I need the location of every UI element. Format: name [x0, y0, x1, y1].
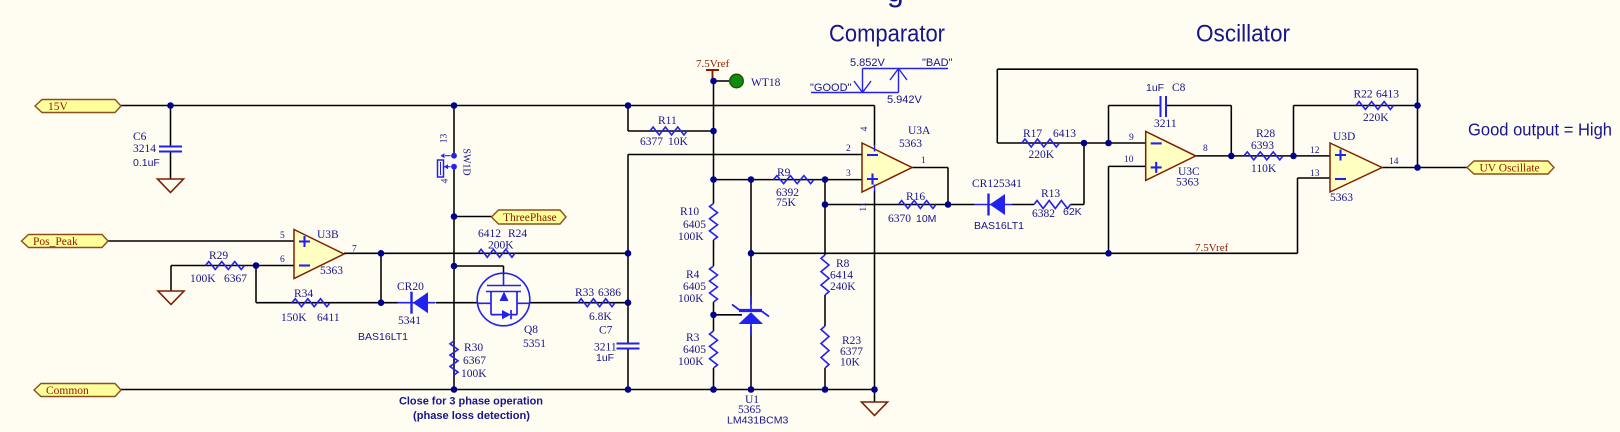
svg-text:R13: R13: [1041, 188, 1060, 200]
svg-text:5363: 5363: [1176, 177, 1199, 189]
resistor R28: [1244, 128, 1283, 175]
svg-text:200K: 200K: [488, 240, 514, 252]
resistor R23: [821, 326, 863, 369]
svg-text:Close for 3 phase operation: Close for 3 phase operation: [399, 396, 543, 408]
svg-text:WT18: WT18: [751, 77, 781, 89]
svg-text:6414: 6414: [830, 270, 853, 282]
wire oscillator top loop vertical right: [1417, 69, 1419, 167]
svg-text:CR125341: CR125341: [972, 178, 1022, 190]
svg-text:4: 4: [860, 126, 870, 131]
resistor R24: [478, 228, 527, 257]
wire SW column lower: [453, 168, 455, 390]
junction R33/col628: [625, 299, 632, 306]
junction pin9/C8: [1105, 140, 1112, 147]
svg-text:220K: 220K: [1029, 149, 1055, 161]
junction common/SW col: [451, 386, 458, 393]
wire U3D output: [1382, 167, 1467, 169]
svg-text:3214: 3214: [133, 143, 156, 155]
svg-text:Q8: Q8: [524, 324, 538, 336]
svg-text:R3: R3: [686, 332, 700, 344]
wire R8 top lead: [824, 205, 826, 256]
svg-text:(phase loss detection): (phase loss detection): [413, 410, 530, 422]
svg-text:6: 6: [280, 255, 285, 265]
svg-text:LM431BCM3: LM431BCM3: [727, 415, 788, 427]
svg-text:100K: 100K: [461, 368, 487, 380]
junction common/col713: [710, 386, 717, 393]
svg-text:R33: R33: [575, 287, 594, 299]
svg-text:5: 5: [280, 231, 285, 241]
test point WT18: [730, 74, 781, 89]
wire U3A power column bottom: [874, 191, 876, 390]
net flag Pos_Peak: [22, 235, 109, 249]
wire node column x628: [627, 155, 629, 345]
svg-text:5.852V: 5.852V: [850, 57, 886, 69]
wire R34 drop: [255, 266, 257, 303]
svg-text:U3B: U3B: [317, 229, 339, 241]
svg-text:3211: 3211: [1154, 118, 1177, 130]
wire C6 lower lead: [170, 152, 172, 180]
wire U3C pin9 row: [997, 142, 1145, 144]
wire U1 ref wire: [714, 314, 743, 316]
junction R16/U3A out: [945, 201, 952, 208]
junction U3C out/C8: [1228, 153, 1235, 160]
wire R11 row: [628, 130, 714, 132]
U3A power pin stubs: [874, 145, 876, 152]
junction U3B out/col628: [625, 250, 632, 257]
svg-text:R16: R16: [906, 191, 925, 203]
resistor R33: [575, 287, 621, 323]
svg-text:R34: R34: [294, 288, 313, 300]
diode CR12: [972, 178, 1024, 232]
op-amp U3C: [1124, 131, 1208, 188]
junction Q8 gate tap: [451, 263, 458, 270]
wire R22 left riser: [1293, 106, 1295, 156]
svg-text:6405: 6405: [683, 281, 706, 293]
wire R34 row: [256, 302, 398, 304]
junction common/gnd: [871, 386, 878, 393]
svg-text:C8: C8: [1172, 82, 1186, 94]
svg-text:g: g: [887, 0, 904, 9]
junction U1 ref: [710, 312, 717, 319]
svg-text:8: 8: [1203, 144, 1208, 154]
junction common/col825: [822, 386, 829, 393]
wire U3A output drop: [947, 168, 949, 205]
wire ThreePhase tap: [454, 216, 492, 218]
svg-text:6393: 6393: [1251, 140, 1274, 152]
net flag UV Oscillate: [1467, 161, 1554, 175]
resistor R17: [1022, 128, 1076, 161]
resistor R4: [678, 266, 718, 305]
svg-text:R4: R4: [686, 269, 700, 281]
resistor R30: [450, 341, 487, 380]
wire 15V rail: [121, 105, 875, 107]
wire U3D pin13 row: [1298, 177, 1331, 179]
svg-text:CR20: CR20: [397, 281, 424, 293]
svg-text:1: 1: [921, 156, 926, 166]
svg-text:10M: 10M: [916, 213, 936, 225]
wire R23 bottom lead: [824, 368, 826, 390]
svg-text:5363: 5363: [320, 265, 343, 277]
capacitor C7: [594, 325, 640, 365]
svg-text:150K: 150K: [281, 312, 307, 324]
wire G3 stub: [874, 390, 876, 403]
junction U3D out/loop: [1414, 164, 1421, 171]
svg-text:4: 4: [441, 178, 451, 183]
junction 7.5Vref/WT18: [710, 78, 717, 85]
wire R3 bottom lead: [713, 368, 715, 390]
op-amp U3A: [846, 125, 931, 192]
svg-text:1uF: 1uF: [596, 352, 614, 364]
junction common/col751: [748, 386, 755, 393]
wire Q8 drain to R33: [530, 302, 629, 304]
wire U1 cathode column: [750, 180, 752, 305]
svg-text:100K: 100K: [190, 273, 216, 285]
svg-text:6382: 6382: [1032, 208, 1055, 220]
transistor Q8: [477, 273, 546, 350]
wire C8 right drop: [1230, 106, 1232, 156]
svg-text:100K: 100K: [678, 356, 704, 368]
junction pin3/col751: [748, 176, 755, 183]
resistor R3: [678, 331, 718, 368]
wire common rail: [121, 389, 875, 391]
wire R16 row: [825, 204, 975, 206]
svg-text:R17: R17: [1023, 128, 1042, 140]
wire U3C pin10 row: [1109, 165, 1146, 167]
svg-text:BAS16LT1: BAS16LT1: [358, 331, 408, 343]
svg-text:13: 13: [440, 134, 450, 144]
resistor R9: [774, 167, 815, 209]
svg-text:6413: 6413: [1376, 89, 1399, 101]
wire C6 upper lead: [170, 106, 172, 147]
svg-text:R28: R28: [1256, 128, 1275, 140]
svg-text:100K: 100K: [678, 231, 704, 243]
svg-text:6370: 6370: [888, 213, 911, 225]
svg-text:6413: 6413: [1053, 128, 1076, 140]
wire U3B pin5 input: [108, 240, 294, 242]
capacitor C8: [1146, 82, 1186, 130]
svg-text:0.1uF: 0.1uF: [133, 157, 160, 169]
net flag Common: [34, 384, 121, 398]
svg-text:U3A: U3A: [908, 125, 931, 137]
svg-text:7.5Vref: 7.5Vref: [696, 58, 730, 70]
junction U3B out/R34: [378, 250, 385, 257]
hysteresis annotation GOOD/BAD: [810, 57, 953, 106]
junction 15V/C6: [167, 102, 174, 109]
svg-text:BAS16LT1: BAS16LT1: [974, 220, 1024, 232]
switch SW1D: [438, 134, 472, 184]
svg-text:"GOOD": "GOOD": [810, 82, 852, 94]
net flag ThreePhase: [492, 210, 567, 224]
svg-text:240K: 240K: [830, 281, 856, 293]
wire R22 row: [1294, 105, 1418, 107]
svg-text:6405: 6405: [683, 344, 706, 356]
svg-text:Comparator: Comparator: [829, 21, 945, 48]
svg-text:Common: Common: [46, 385, 89, 397]
svg-text:12: 12: [1310, 146, 1320, 156]
svg-text:6386: 6386: [598, 287, 621, 299]
svg-text:10: 10: [1124, 155, 1134, 165]
resistor R11: [640, 115, 689, 148]
wire Q8 gate vertical: [503, 266, 505, 275]
svg-text:"BAD": "BAD": [922, 57, 953, 69]
svg-text:R30: R30: [464, 342, 483, 354]
wire oscillator top loop vertical left: [996, 69, 998, 143]
svg-text:6405: 6405: [683, 219, 706, 231]
svg-text:6377: 6377: [640, 136, 663, 148]
svg-text:5351: 5351: [523, 338, 546, 350]
wire 7.5Vref column: [713, 81, 715, 204]
wire C8 left drop: [1108, 106, 1110, 144]
wire U3C output row: [1196, 155, 1330, 157]
ground GND at C6: [158, 179, 184, 193]
svg-text:220K: 220K: [1363, 112, 1389, 124]
resistor R8: [821, 255, 856, 295]
svg-text:Pos_Peak: Pos_Peak: [33, 236, 78, 248]
net flag 15V: [35, 100, 121, 114]
wire CR20 to Q8: [436, 302, 478, 304]
wire WT18 stub: [714, 80, 730, 82]
svg-text:10K: 10K: [668, 136, 689, 148]
wire C8 left lead: [1109, 105, 1161, 107]
junction 7.5Vref rail/U3C pin10: [1105, 250, 1112, 257]
wire U3A power column top: [874, 106, 876, 146]
svg-text:R24: R24: [508, 228, 527, 240]
junction 7.5Vref rail/col751: [748, 250, 755, 257]
junction pin3/col713: [710, 176, 717, 183]
svg-text:ThreePhase: ThreePhase: [503, 212, 557, 224]
wire oscillator top loop: [997, 68, 1417, 70]
svg-text:7: 7: [352, 245, 357, 255]
op-amp U3D: [1310, 131, 1399, 204]
svg-text:11: 11: [859, 202, 869, 211]
ground GND at R29: [158, 291, 184, 305]
wire U3A output lead: [912, 167, 949, 169]
junction 15V/SW col: [451, 102, 458, 109]
svg-text:15V: 15V: [48, 101, 69, 113]
svg-text:9: 9: [1129, 133, 1134, 143]
wire 7.5Vref rail: [751, 252, 1298, 254]
junction ThreePhase tap: [451, 213, 458, 220]
svg-text:10K: 10K: [840, 357, 861, 369]
wire Q8 gate horizontal: [454, 265, 504, 267]
wire R8-R23 link: [824, 295, 826, 326]
wire U3C pin10 drop: [1108, 166, 1110, 253]
wire U3B feedback drop: [380, 253, 382, 302]
wire SW column upper: [453, 106, 455, 155]
svg-text:UV Oscillate: UV Oscillate: [1480, 163, 1540, 175]
junction U3C out/R22: [1290, 153, 1297, 160]
svg-text:Oscillator: Oscillator: [1196, 21, 1290, 48]
ground GND at U3A power column: [862, 402, 888, 416]
shunt reference U1: [727, 297, 788, 427]
wire U3D pin13 drop: [1297, 178, 1299, 253]
svg-text:5363: 5363: [899, 138, 922, 150]
wire R11 drop: [627, 106, 629, 132]
svg-text:R29: R29: [209, 250, 228, 262]
svg-text:R11: R11: [658, 115, 677, 127]
svg-text:R8: R8: [836, 258, 850, 270]
junction R11/col713: [710, 128, 717, 135]
svg-text:Good output = High: Good output = High: [1468, 120, 1612, 140]
svg-text:R10: R10: [680, 206, 699, 218]
svg-text:1uF: 1uF: [1146, 82, 1164, 94]
svg-text:6412: 6412: [478, 228, 501, 240]
junction R29/R34: [253, 262, 260, 269]
wire U3A pin2 input: [628, 154, 862, 156]
wire R10-R4 link: [713, 240, 715, 266]
svg-text:13: 13: [1310, 169, 1320, 179]
power symbol 7.5Vref: [696, 58, 730, 81]
svg-text:3: 3: [846, 169, 851, 179]
wire U1 anode lead: [750, 326, 752, 390]
svg-text:SW1D: SW1D: [461, 148, 472, 175]
svg-text:R22: R22: [1354, 89, 1373, 101]
wire U3A pin3 input: [714, 179, 863, 181]
junction R22/loop: [1414, 102, 1421, 109]
wire node column x628 low: [627, 348, 629, 390]
junction R16/R8: [822, 201, 829, 208]
svg-text:5.942V: 5.942V: [887, 94, 923, 106]
svg-text:5341: 5341: [398, 315, 421, 327]
svg-text:U3D: U3D: [1333, 131, 1355, 143]
op-amp U3B: [280, 229, 357, 279]
svg-text:7.5Vref: 7.5Vref: [1195, 242, 1229, 254]
wire R4-R3 link: [713, 302, 715, 331]
wire R13 tap up: [1083, 143, 1085, 205]
wire R29 ground drop: [170, 266, 172, 292]
junction common/col628: [625, 386, 632, 393]
svg-text:110K: 110K: [1251, 163, 1277, 175]
svg-text:2: 2: [846, 144, 851, 154]
svg-text:100K: 100K: [678, 293, 704, 305]
resistor R34: [281, 288, 340, 324]
svg-text:14: 14: [1389, 157, 1399, 167]
junction 15V/x628: [625, 102, 632, 109]
wire C8 right lead: [1166, 105, 1231, 107]
svg-text:62K: 62K: [1063, 206, 1082, 218]
diode CR20: [358, 281, 436, 343]
resistor R16: [888, 191, 936, 225]
resistor R29: [190, 250, 247, 285]
svg-text:5363: 5363: [1330, 192, 1353, 204]
svg-text:6411: 6411: [317, 312, 340, 324]
resistor R10: [678, 204, 718, 244]
svg-text:6.8K: 6.8K: [589, 311, 612, 323]
resistor R22: [1354, 89, 1400, 125]
svg-text:R9: R9: [777, 167, 791, 179]
junction R34/CR20: [378, 299, 385, 306]
wire U3B output: [344, 252, 628, 254]
wire R29 row: [171, 265, 294, 267]
wire R16 tap up: [824, 180, 826, 205]
wire CR12 to R13: [1012, 204, 1034, 206]
svg-text:6367: 6367: [224, 273, 247, 285]
junction pin9/R13 tap: [1081, 140, 1088, 147]
junction pin3/R16 tap: [822, 176, 829, 183]
wire R13 right lead: [1071, 204, 1085, 206]
svg-text:C6: C6: [133, 131, 147, 143]
resistor R13: [1032, 188, 1082, 220]
svg-text:C7: C7: [599, 325, 613, 337]
capacitor C6: [133, 131, 182, 169]
svg-text:75K: 75K: [776, 197, 797, 209]
svg-text:6367: 6367: [463, 355, 486, 367]
